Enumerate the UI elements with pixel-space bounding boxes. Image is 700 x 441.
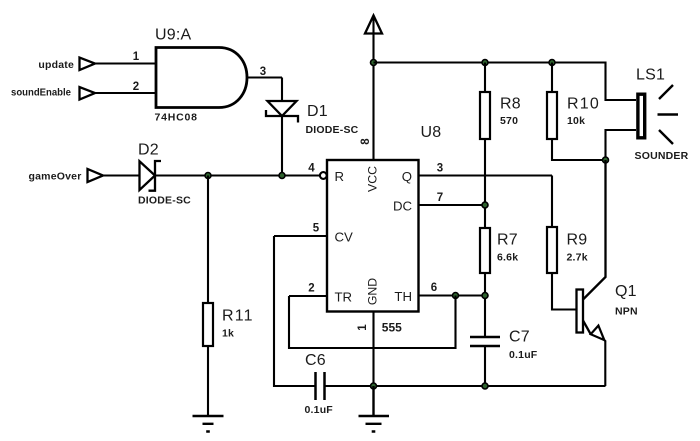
wire speaker bottom terminal <box>606 130 637 160</box>
svg-text:VCC: VCC <box>366 166 380 192</box>
svg-text:D1: D1 <box>307 103 328 120</box>
ground main <box>359 386 390 432</box>
svg-text:6.6k: 6.6k <box>497 252 518 264</box>
svg-text:NPN: NPN <box>615 306 638 318</box>
svg-text:10k: 10k <box>567 115 585 127</box>
pin 6 TH wire <box>419 294 486 296</box>
AND gate U9:A <box>156 48 247 108</box>
svg-text:DIODE-SC: DIODE-SC <box>306 124 359 136</box>
svg-text:R8: R8 <box>500 96 521 113</box>
svg-text:TR: TR <box>335 290 353 305</box>
net label update <box>38 59 74 71</box>
svg-text:1: 1 <box>357 324 369 331</box>
wire top power rail <box>374 63 637 101</box>
pin number 1 <box>133 51 140 63</box>
Q1 emitter <box>583 321 591 335</box>
node junction gameOver/R11 <box>205 173 211 179</box>
svg-text:C6: C6 <box>305 352 326 369</box>
svg-text:TH: TH <box>394 289 412 304</box>
svg-text:DC: DC <box>393 199 413 214</box>
svg-text:DIODE-SC: DIODE-SC <box>138 195 191 207</box>
svg-text:2.7k: 2.7k <box>567 252 588 264</box>
wire bottom rail <box>374 385 606 387</box>
svg-text:R9: R9 <box>567 232 588 249</box>
svg-text:C7: C7 <box>509 329 530 346</box>
svg-text:Q1: Q1 <box>615 283 637 300</box>
svg-text:soundEnable: soundEnable <box>11 87 71 99</box>
transistor Q1 <box>577 290 584 333</box>
node junction R10 top <box>549 60 555 66</box>
node junction TH/R7/C7 <box>482 293 488 299</box>
svg-text:3: 3 <box>260 66 266 78</box>
resistor R7 <box>480 228 490 273</box>
svg-text:3: 3 <box>437 163 443 175</box>
capacitor C7 <box>470 337 500 346</box>
pin 1 GND wire <box>372 312 374 387</box>
input terminal update <box>80 58 96 71</box>
svg-text:1: 1 <box>133 51 140 63</box>
node junction R10/speaker/collector <box>603 157 609 163</box>
svg-text:570: 570 <box>500 115 518 127</box>
resistor R11 <box>203 303 213 346</box>
wire soundEnable to U9 pin2 <box>95 92 156 94</box>
svg-text:GND: GND <box>366 278 380 305</box>
wire TR-TH link <box>289 296 456 349</box>
wire Q output down to R9 <box>551 176 553 228</box>
svg-text:8: 8 <box>360 138 372 145</box>
svg-text:4: 4 <box>308 163 315 175</box>
svg-text:R7: R7 <box>497 232 518 249</box>
wire R8 bottom to DC node <box>484 139 486 228</box>
wire down to D1 <box>281 78 283 102</box>
diode D1 <box>268 101 297 116</box>
svg-text:CV: CV <box>335 230 354 245</box>
resistor R9 <box>547 227 557 273</box>
node junction R8 top <box>482 60 488 66</box>
pin 7 DC wire <box>419 204 486 206</box>
svg-text:2: 2 <box>133 81 139 93</box>
svg-text:U8: U8 <box>421 124 442 141</box>
wire update to U9 pin1 <box>95 62 156 64</box>
wire R11 top <box>207 176 209 304</box>
node junction power rail <box>371 60 377 66</box>
svg-text:2: 2 <box>308 283 314 295</box>
svg-text:update: update <box>38 59 74 71</box>
wire CV to C6 <box>274 236 316 386</box>
wire gameOver to D2 <box>103 174 140 176</box>
input terminal gameOver <box>88 169 104 182</box>
svg-text:R10: R10 <box>567 96 600 113</box>
555 timer U8 <box>327 160 419 312</box>
wire R10 bottom <box>552 139 606 160</box>
svg-text:1k: 1k <box>222 328 234 340</box>
wire C6 to ground rail <box>325 385 374 387</box>
pin 8 VCC <box>372 63 374 161</box>
node junction DC/R8/R7 <box>482 202 488 208</box>
pin 3 Q wire <box>419 174 553 176</box>
sounder rays <box>658 85 679 144</box>
svg-text:R: R <box>335 169 345 184</box>
svg-text:5: 5 <box>313 223 320 235</box>
node junction C7/rail <box>482 383 488 389</box>
wire R11 bottom <box>207 346 209 416</box>
pin 2 TR wire <box>289 295 327 297</box>
svg-text:D2: D2 <box>138 142 159 159</box>
speaker LS1 <box>638 94 645 138</box>
node junction TR link/TH <box>453 293 459 299</box>
input terminal soundEnable <box>80 87 96 100</box>
wire C7 bottom <box>484 346 486 386</box>
node junction C6/GND <box>371 383 377 389</box>
wire D2 to U8 reset <box>155 174 320 176</box>
net label soundEnable <box>11 87 71 99</box>
resistor R8 <box>480 92 490 139</box>
svg-text:0.1uF: 0.1uF <box>509 349 538 361</box>
wire R10 top <box>551 63 553 93</box>
wire speaker top terminal <box>606 99 637 101</box>
pin 4 R bubble <box>320 172 327 179</box>
svg-text:6: 6 <box>431 282 437 294</box>
wire R8 top <box>484 63 486 93</box>
svg-text:SOUNDER: SOUNDER <box>635 150 689 162</box>
svg-text:R11: R11 <box>222 308 254 325</box>
svg-text:0.1uF: 0.1uF <box>305 404 334 416</box>
wire D1 cathode down <box>281 116 283 176</box>
svg-text:7: 7 <box>437 192 443 204</box>
ground R11 <box>193 416 224 432</box>
wire U9 output pin 3 <box>247 76 282 78</box>
net label gameOver <box>29 171 82 183</box>
capacitor C6 <box>316 372 325 400</box>
diode D2 <box>140 161 156 190</box>
power symbol VCC arrow <box>372 17 374 63</box>
svg-text:Q: Q <box>402 169 412 184</box>
Q1 collector <box>583 160 606 300</box>
wire R7 bottom <box>484 273 486 337</box>
pin 5 CV wire <box>274 235 327 237</box>
wire R9 bottom to Q1 base <box>552 273 577 310</box>
svg-text:U9:A: U9:A <box>155 27 191 44</box>
svg-text:LS1: LS1 <box>636 67 665 84</box>
svg-text:74HC08: 74HC08 <box>155 112 198 124</box>
pin number 2 <box>133 81 139 93</box>
svg-text:555: 555 <box>382 321 402 335</box>
node junction D1/D2 <box>279 173 285 179</box>
resistor R10 <box>547 92 557 139</box>
svg-text:gameOver: gameOver <box>29 171 82 183</box>
